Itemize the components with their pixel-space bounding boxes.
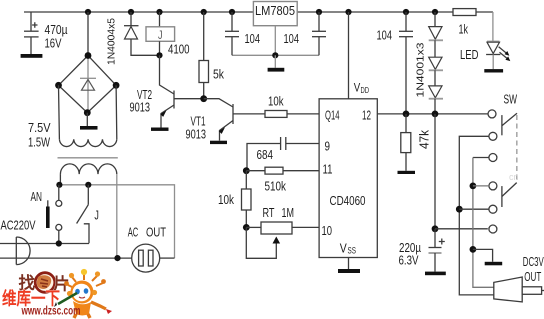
node: pin10 junction — [243, 224, 250, 231]
ground (C1) — [21, 54, 43, 58]
svg-text:1N4004x5: 1N4004x5 — [106, 18, 118, 65]
svg-text:5k: 5k — [213, 67, 224, 82]
ground (LM7805) — [232, 26, 319, 72]
capacitor C6 220u/6.3V — [429, 229, 445, 272]
transformer T1 primary — [60, 164, 116, 258]
relay coil J — [146, 9, 175, 59]
svg-text:10k: 10k — [218, 192, 234, 207]
svg-text:SW: SW — [504, 91, 518, 106]
resistor R1 5k — [199, 9, 209, 99]
transformer T1 secondary — [59, 85, 117, 146]
node: pin11 junction — [243, 167, 250, 174]
node: VDD rail junction — [345, 9, 351, 15]
ground (SW) — [473, 249, 502, 265]
plug DC3V OUT — [494, 277, 544, 302]
label RT 1M — [263, 205, 295, 220]
ground (VT1) — [210, 141, 227, 144]
resistor R2 1k — [453, 9, 476, 16]
svg-text:4100: 4100 — [168, 42, 190, 57]
svg-text:LM7805: LM7805 — [255, 3, 295, 18]
svg-text:J: J — [158, 28, 163, 42]
svg-text:AC: AC — [128, 224, 139, 239]
ground (C6) — [425, 272, 446, 276]
svg-text:510k: 510k — [265, 179, 287, 194]
transformer T1 core — [58, 157, 118, 159]
wire: VDD feed — [348, 12, 350, 99]
ground (LED) — [484, 69, 503, 72]
switch SW linkage (dashed) — [516, 115, 518, 181]
potentiometer RT 1M — [246, 222, 319, 258]
svg-text:12: 12 — [362, 108, 371, 123]
LED — [486, 12, 510, 69]
switch SW pole 1 — [502, 113, 517, 135]
ground (bridge) — [80, 113, 98, 130]
svg-text:www.dzsc.com: www.dzsc.com — [21, 306, 81, 318]
svg-text:SS: SS — [348, 246, 357, 256]
transistor VT1 9013 — [204, 99, 265, 141]
label 7.5V 1.5W — [28, 120, 51, 150]
label VT2 9013 — [130, 87, 153, 115]
capacitor C3 104 — [312, 9, 326, 55]
resistor R4 510k — [246, 167, 319, 174]
capacitor C5 684 — [247, 137, 319, 171]
ground (CD4060) — [338, 258, 360, 274]
svg-text:V: V — [340, 241, 347, 256]
svg-text:6.3V: 6.3V — [399, 253, 419, 268]
capacitor C1 470u/16V — [24, 12, 39, 54]
wire: pin12 net — [377, 111, 488, 118]
svg-text:Q14: Q14 — [325, 108, 340, 123]
resistor R6 47k — [401, 114, 411, 171]
svg-text:7.5V: 7.5V — [28, 120, 51, 135]
svg-text:1k: 1k — [459, 22, 469, 37]
svg-text:10k: 10k — [268, 94, 284, 109]
diode D1 1N4004 — [124, 9, 160, 55]
svg-text:DC3V: DC3V — [523, 254, 544, 269]
svg-text:OUT: OUT — [524, 269, 541, 284]
wire: switch feed column — [432, 114, 488, 232]
wire: AC line top prong — [0, 240, 89, 246]
svg-text:OUT: OUT — [146, 224, 166, 239]
svg-text:16V: 16V — [45, 36, 62, 51]
svg-text:9013: 9013 — [186, 127, 207, 142]
node: rail junction bridge — [85, 9, 91, 15]
svg-text:9: 9 — [325, 139, 331, 154]
svg-text:J: J — [94, 209, 99, 223]
transistor VT2 9013 — [160, 55, 204, 127]
svg-text:1N4001x3: 1N4001x3 — [416, 42, 427, 98]
IC U2 CD4060 — [319, 99, 377, 258]
plug AC220V — [16, 237, 30, 265]
wire: primary-left node row — [56, 182, 174, 258]
svg-text:104: 104 — [377, 28, 393, 43]
wire: SW t2-t5 net — [456, 136, 494, 295]
voltage regulator U1 LM7805 — [253, 2, 297, 26]
socket AC OUT — [132, 244, 175, 272]
relay contact J — [77, 185, 89, 243]
svg-text:AN: AN — [31, 189, 43, 204]
svg-text:CD4060: CD4060 — [330, 193, 366, 208]
wire: SW t3-t4 net — [470, 158, 494, 288]
svg-text:DD: DD — [361, 86, 370, 95]
watermark logo — [19, 273, 70, 294]
ground (VT2) — [151, 128, 169, 131]
svg-text:1M: 1M — [282, 205, 295, 220]
label VDD — [354, 83, 369, 96]
svg-text:LED: LED — [460, 47, 479, 62]
svg-text:10: 10 — [322, 223, 333, 238]
svg-text:11: 11 — [323, 162, 333, 177]
node: VT1/VT2 base junction — [200, 95, 207, 102]
resistor R3 10k — [265, 111, 319, 118]
switch SW pole 2 — [502, 183, 517, 207]
svg-text:104: 104 — [284, 31, 300, 46]
svg-text:AC220V: AC220V — [1, 217, 36, 232]
label AC OUT — [128, 224, 166, 239]
svg-text:1.5W: 1.5W — [28, 135, 51, 150]
watermark mascot — [54, 269, 112, 318]
svg-text:104: 104 — [245, 31, 261, 46]
bridge rectifier — [55, 52, 119, 116]
value label 470u 16V — [45, 22, 68, 51]
svg-text:47k: 47k — [417, 130, 432, 149]
value label 220u 6.3V — [399, 240, 422, 268]
switch SW terminals — [488, 110, 497, 233]
wire: +V top rail — [24, 11, 493, 13]
pushbutton AN — [46, 185, 62, 244]
capacitor C4 104 — [399, 9, 413, 114]
svg-text:cn: cn — [509, 172, 519, 182]
wire: rail to bridge top — [87, 12, 89, 56]
diode chain D2-D4 1N4001x3 — [429, 9, 443, 114]
label VT1 9013 — [186, 114, 207, 142]
svg-text:9013: 9013 — [130, 100, 151, 115]
ground (47k) — [398, 171, 416, 174]
svg-text:RT: RT — [263, 205, 275, 220]
wire: AC line bottom prong — [0, 255, 132, 261]
svg-text:684: 684 — [257, 147, 274, 162]
label DC3V OUT — [523, 254, 544, 284]
resistor R5 10k — [242, 171, 252, 228]
capacitor C2 104 — [225, 9, 239, 55]
